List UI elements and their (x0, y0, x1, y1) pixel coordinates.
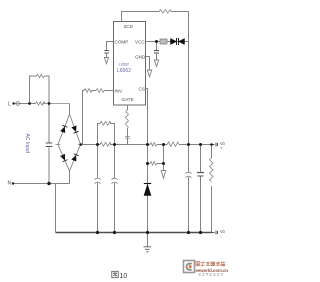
svg-text:CS: CS (139, 86, 145, 91)
svg-text:L6562: L6562 (119, 63, 129, 67)
svg-text:-: - (220, 234, 222, 239)
svg-text:10: 10 (120, 273, 128, 280)
svg-text:+: + (220, 146, 223, 151)
svg-text:eeworld.com.cn: eeworld.com.cn (196, 268, 229, 273)
svg-text:VCC: VCC (135, 39, 145, 44)
svg-text:INV: INV (115, 88, 124, 93)
svg-text:L6562: L6562 (117, 68, 131, 74)
svg-text:GATE: GATE (122, 97, 134, 102)
svg-text:L: L (8, 102, 11, 108)
svg-text:ZCD: ZCD (124, 24, 134, 29)
svg-text:N: N (8, 181, 12, 187)
svg-text:COMP: COMP (115, 39, 129, 44)
svg-text:AC Input: AC Input (24, 134, 30, 154)
svg-text:GND: GND (135, 54, 146, 59)
